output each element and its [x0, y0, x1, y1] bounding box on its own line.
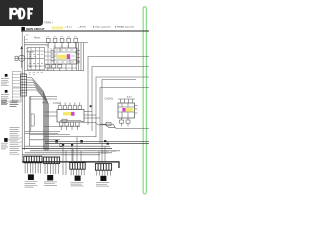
- label left board 1 icon: [5, 74, 8, 77]
- block tuner front-end midline: [27, 58, 44, 60]
- wire mid horizontals: [30, 96, 57, 99]
- legend item FM/AM signal line: [115, 26, 135, 29]
- label left board 3 text column: [1, 128, 20, 155]
- connector CN6006 text: [71, 182, 84, 186]
- label Mixer: [34, 35, 40, 39]
- capacitor C6002: [53, 38, 57, 42]
- wire nested L2 to right edge: [92, 67, 149, 132]
- connector CN6004 body: [24, 156, 42, 163]
- connector CN6007 label: [100, 176, 106, 181]
- search highlight active magenta IC6001: [67, 54, 70, 59]
- legend item A 9V: [77, 26, 86, 29]
- search highlight active magenta IC6003: [122, 108, 125, 112]
- wire stubs from left labels to bus: [8, 138, 23, 146]
- wire IC6003 top stubs: [118, 99, 135, 103]
- wire fan verticals right of IC: [76, 43, 83, 71]
- connector CN6004 pins: [25, 163, 41, 174]
- wire bottom bus of tuner: [25, 70, 84, 72]
- search highlight active magenta IC6002: [71, 112, 74, 116]
- node dot N1: [62, 144, 64, 146]
- transistor Q6002: [80, 140, 83, 143]
- wire drop to CN6007: [99, 144, 105, 164]
- resistor R6030: [31, 114, 34, 126]
- wire fan from CN6001: [27, 78, 49, 151]
- ic IC6003 inner: [118, 103, 135, 118]
- connector CN6007 body: [95, 164, 111, 171]
- capacitor marks on fan: [75, 52, 79, 63]
- block tuner detail marks: [29, 55, 43, 67]
- specks near bus top: [26, 35, 29, 52]
- wire horizontal 152.5: [25, 152, 112, 154]
- wire horizontal 146: [25, 145, 110, 147]
- header rule: [21, 30, 149, 32]
- resistor R6010: [120, 120, 124, 123]
- wire top bus: [25, 42, 88, 44]
- ic IC6002 label: [53, 102, 61, 105]
- ic IC6002 top pin boxes: [59, 106, 82, 110]
- wire RF horizontal: [15, 58, 35, 60]
- PDF letter F: [27, 8, 30, 20]
- wire right area vertical: [102, 80, 136, 89]
- connector CN6001 pins: [20, 77, 26, 93]
- transistor Q6001: [55, 140, 58, 143]
- wire horizontal 143.5: [45, 143, 149, 145]
- wire tuner input row: [25, 44, 48, 46]
- connector CN6006 label: [75, 176, 81, 181]
- wire left bus vertical: [21, 32, 23, 163]
- wire horizontal 148.5: [22, 148, 112, 150]
- PDF badge: [0, 0, 149, 198]
- PDF letter P: [9, 8, 33, 20]
- wire horizontal 131: [25, 131, 60, 133]
- wire horizontal 126: [44, 126, 80, 128]
- label left board 2b text: [1, 101, 19, 107]
- wire horizontal 124: [100, 124, 149, 128]
- wire jack right: [28, 52, 34, 68]
- header icon: [21, 27, 25, 31]
- label specks above capacitors: [47, 37, 78, 46]
- search highlight yellow IC6002: [63, 112, 71, 115]
- wire horizontal 134: [30, 134, 70, 136]
- node dot 141: [104, 140, 106, 142]
- resistor R6001: [46, 65, 50, 68]
- component box X6001: [60, 143, 62, 147]
- label left board 2 table: [12, 88, 21, 102]
- wire horizontal 139.8: [30, 139, 60, 141]
- search highlight yellow IC6003: [126, 108, 133, 112]
- wire vertical 102: [101, 88, 103, 144]
- connector CN6005 pins: [45, 164, 59, 174]
- connector CN6005 body: [44, 157, 60, 164]
- label CN3001: [105, 98, 114, 101]
- search highlight on legend word: [52, 26, 64, 29]
- page header text fragment: [44, 20, 53, 24]
- label left board 3 black box: [4, 138, 7, 142]
- node dot N2: [71, 144, 73, 146]
- wire nested L3 to right edge: [96, 77, 149, 137]
- wire IC6002 right: [84, 112, 100, 119]
- wire horizontal 150.5: [30, 150, 120, 152]
- connector CN6006 pins: [71, 169, 84, 175]
- wire staircase 120: [60, 120, 115, 127]
- connector CN6004 label: [28, 174, 34, 180]
- label left board 2 icon: [5, 90, 8, 93]
- ic IC6001 pin ticks: [51, 51, 80, 62]
- wire horizontal 154.5: [22, 154, 100, 156]
- ic IC6001 inner detail: [54, 48, 77, 64]
- label IC6003 right: [127, 96, 132, 99]
- ic IC6001: [54, 48, 77, 64]
- wire IC6003 bottom stubs: [122, 118, 129, 126]
- connector CN6004 text: [25, 182, 38, 187]
- wire horizontal 141: [45, 140, 149, 142]
- resistor R6020: [62, 119, 67, 122]
- wire IC6003 right stubs: [135, 106, 138, 114]
- node dot 143: [107, 143, 109, 145]
- connector CN6001: [20, 74, 26, 96]
- antenna input arrow: [21, 46, 23, 49]
- capacitor C6004: [67, 38, 71, 42]
- wire ground bus thick: [22, 162, 119, 168]
- connector CN6006 body: [70, 163, 85, 170]
- wire nested L1 to right edge: [88, 57, 149, 126]
- label left board 2 text: [1, 95, 9, 104]
- PDF letter D: [19, 8, 22, 20]
- legend item video signal line: [93, 26, 112, 29]
- capacitor C1: [15, 56, 18, 60]
- title MAIN CIRCUIT: [26, 27, 45, 31]
- block tuner front-end: [27, 47, 44, 70]
- ic IC6002: [57, 110, 84, 123]
- label left board 1 table: [12, 72, 21, 88]
- green annotation bar: [143, 7, 146, 194]
- connector CN6007 text: [96, 183, 109, 187]
- RF jack J1: [19, 55, 25, 61]
- wire horizontal 133.5: [25, 133, 58, 135]
- wire drop to CN6006: [73, 149, 81, 163]
- wire IC6002 bottom stubs: [61, 126, 77, 130]
- label left board 1 text: [1, 79, 9, 86]
- connector CN6005 text: [44, 182, 57, 186]
- capacitor C6001: [46, 38, 50, 42]
- ic IC6003: [118, 103, 135, 118]
- connector CN6007 pins: [97, 170, 111, 175]
- wire drops to CN6005: [63, 137, 77, 175]
- capacitor C6005: [74, 38, 78, 42]
- wire IC6002 top stubs: [60, 103, 80, 106]
- search highlight yellow IC6001: [58, 55, 67, 59]
- wire pin stubs bottom row: [48, 64, 72, 71]
- legend item B+: [64, 27, 72, 29]
- resistor R6021: [106, 123, 111, 126]
- capacitor C6003: [60, 38, 64, 42]
- component row under tuner: [29, 73, 44, 75]
- label CN6007 text: [101, 152, 116, 154]
- wire IC6002 left: [44, 112, 57, 116]
- resistor R6011: [126, 120, 130, 123]
- ic IC6001 text specks: [56, 50, 75, 62]
- wire pin stubs top row: [48, 42, 75, 48]
- connector CN6005 label: [47, 175, 53, 180]
- resistor R6002: [52, 65, 56, 68]
- block tuner cell grid: [27, 45, 77, 71]
- wire nested L4 to right edge: [100, 88, 149, 144]
- junction dot: [90, 105, 92, 107]
- resistor R6003: [58, 65, 62, 68]
- wire horizontal 136.5: [44, 136, 96, 138]
- wire antenna vertical: [21, 48, 23, 68]
- label left of IC6002: [42, 102, 48, 105]
- ic IC6002 bottom pin boxes: [60, 122, 80, 126]
- wire mid vertical pair: [30, 96, 31, 146]
- wire left bus vertical 2: [24, 36, 26, 150]
